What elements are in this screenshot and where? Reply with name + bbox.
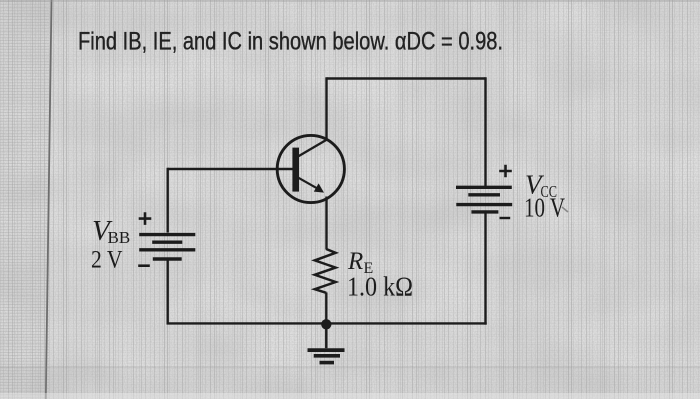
transistor Q1 emitter stroke	[299, 178, 318, 189]
wire: VBB vertical upper	[166, 168, 168, 233]
battery VCC plus sign	[499, 165, 512, 178]
top edge shadow	[0, 0, 700, 2]
battery VCC minus sign	[500, 217, 511, 219]
svg-text:2 V: 2 V	[91, 247, 123, 274]
left margin band with crosshatch	[0, 0, 49, 399]
ground bar 2	[314, 354, 340, 358]
battery VCC plate short	[468, 193, 500, 196]
wire: top rail collector to VCC	[327, 77, 486, 79]
page edge vertical line	[46, 0, 52, 399]
battery VCC plate long top	[456, 186, 512, 189]
transistor Q1 collector stroke	[298, 140, 327, 157]
wire: VCC vertical lower	[484, 213, 486, 325]
battery VCC plate short bottom	[471, 210, 498, 213]
wire: base horizontal	[168, 168, 293, 170]
transistor Q1 circle	[277, 135, 344, 202]
node junction dot	[321, 319, 331, 329]
svg-text:1.0 kΩ: 1.0 kΩ	[347, 272, 413, 302]
wire: VBB vertical lower	[166, 261, 168, 324]
wire: collector vertical	[325, 77, 327, 140]
ground stem	[325, 324, 328, 348]
svg-text:BB: BB	[108, 228, 131, 247]
svg-text:10 V: 10 V	[524, 193, 565, 223]
ground bar 1	[308, 348, 345, 352]
wire: VCC vertical upper	[484, 77, 486, 186]
transistor Q1 base bar	[292, 148, 299, 192]
wire: emitter down to resistor	[325, 197, 327, 250]
resistor RE zigzag	[315, 249, 336, 293]
ground bar 3	[320, 361, 335, 365]
battery VBB plate short	[152, 240, 182, 243]
small dark speck artifact right side	[562, 207, 568, 212]
battery VBB plate long top	[139, 233, 195, 236]
transistor Q1 emitter arrowhead	[314, 183, 324, 192]
battery VBB plate long lower	[139, 248, 195, 251]
svg-text:Find IB, IE, and IC in shown b: Find IB, IE, and IC in shown below. αDC …	[78, 28, 503, 56]
bottom band boundary	[0, 367, 700, 399]
battery VBB plate short bottom	[153, 257, 182, 260]
wire: bottom rail	[167, 322, 487, 324]
battery VCC plate long lower	[456, 203, 512, 206]
battery VBB minus sign	[138, 264, 150, 267]
wire: resistor to junction node	[325, 292, 327, 324]
battery VBB plus sign	[139, 212, 152, 225]
